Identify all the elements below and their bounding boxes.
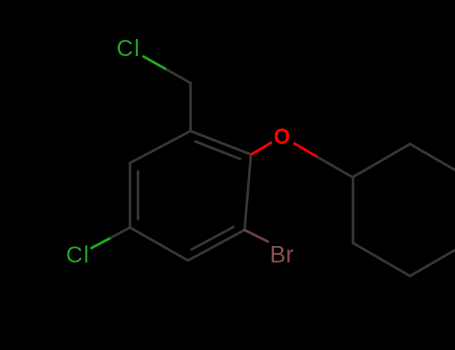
wire V1-V2 [191, 131, 252, 155]
wire BR-B [410, 243, 455, 276]
double bond inner V3-V4 [192, 227, 234, 250]
bond CH2-Cl (green) [144, 57, 168, 70]
svg-text:Cl: Cl [117, 35, 141, 61]
svg-text:O: O [274, 125, 290, 150]
bond V3-Br (dark red) [245, 230, 268, 242]
benzene ring [130, 83, 251, 261]
svg-text:Br: Br [270, 242, 294, 269]
bond V1-CH2 [189, 83, 192, 131]
bond O-CH dark half [318, 157, 354, 178]
double bond inner V1-V2 [196, 142, 241, 159]
wire V4-V5 [130, 228, 188, 261]
bond V5-Cl (green) [92, 238, 112, 248]
bond CH2-Cl dark half [167, 70, 191, 83]
cyclohexane ring [353, 144, 455, 276]
svg-text:Cl: Cl [66, 241, 90, 267]
bond V5-Cl dark half [111, 228, 130, 238]
bond O-CH red half [295, 144, 318, 158]
bond V2-O (red) [252, 143, 272, 155]
double bond inner V5-V6 [137, 171, 140, 219]
wire T-TR [410, 144, 455, 177]
wire B-BL [353, 243, 410, 276]
wire V6-V1 [130, 131, 191, 163]
wire V5-V6 [129, 163, 132, 228]
wire BL-TL [352, 177, 355, 243]
wire V2-V3 [245, 155, 252, 231]
wire V3-V4 [188, 230, 245, 261]
wire TL-T [353, 144, 410, 177]
